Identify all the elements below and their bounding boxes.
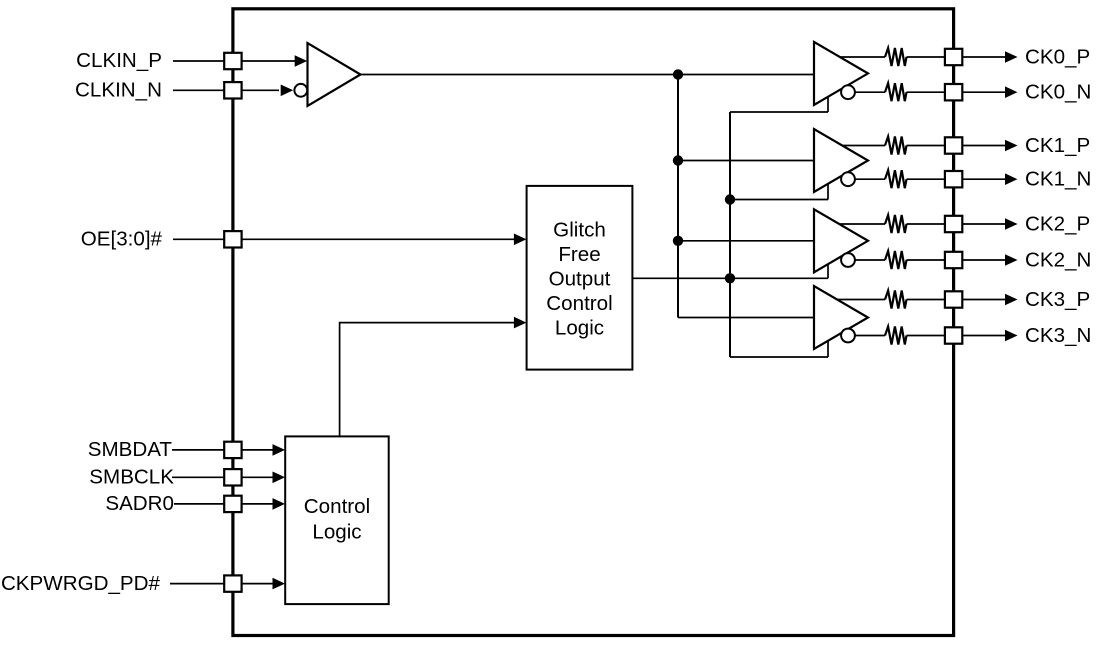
svg-text:OE[3:0]#: OE[3:0]#	[81, 228, 163, 251]
wire buffer CK1 true output to resistor	[842, 145, 885, 147]
arrowhead CK3_P output	[1005, 294, 1018, 306]
wire buffer CK3 true output to resistor	[837, 299, 885, 301]
wire resistor to CK3_N pad	[907, 335, 946, 337]
inverting-output bubble of buffer CK1	[841, 172, 855, 186]
pad OE[3:0]#	[224, 231, 241, 247]
svg-text:Control: Control	[546, 292, 612, 315]
svg-text:Logic: Logic	[312, 521, 361, 544]
wire resistor to CK2_N pad	[907, 259, 946, 261]
arrowhead CK1_N output	[1005, 173, 1018, 185]
wire SMBCLK to control logic	[172, 476, 273, 478]
pad CKPWRGD_PD#	[224, 575, 241, 591]
svg-text:CK0_N: CK0_N	[1025, 81, 1091, 104]
svg-text:CKPWRGD_PD#: CKPWRGD_PD#	[1, 572, 161, 595]
wire CLKIN_N input	[173, 89, 279, 91]
pad CK3_N	[945, 327, 962, 343]
wire clock branch to buffer CK1	[678, 160, 814, 162]
wire buffer CK0 true output to resistor	[840, 56, 885, 58]
node enable junction at CK2 branch	[725, 273, 735, 283]
wire control logic to glitch logic	[340, 323, 514, 437]
wire SADR0 to control logic	[174, 503, 273, 505]
pad CK2_P	[945, 216, 962, 232]
svg-text:Output: Output	[549, 268, 611, 291]
inverting-output bubble of buffer CK2	[841, 253, 855, 267]
output buffer U3 (CK1)	[814, 129, 868, 192]
input differential buffer U1	[308, 43, 361, 106]
arrowhead CLKIN_P into buffer U1	[295, 55, 308, 67]
wire enable stub into buffer CK0	[827, 97, 829, 112]
svg-text:CLKIN_N: CLKIN_N	[75, 79, 162, 102]
wire enable stub into buffer CK3	[827, 341, 829, 357]
series resistor on CK0_P	[885, 48, 907, 66]
wire CK3_N pad to arrow	[962, 335, 1005, 337]
arrowhead CKPWRGD_PD#	[273, 578, 286, 590]
wire CLKIN_P input	[173, 60, 295, 62]
wire CK2_P pad to arrow	[962, 223, 1005, 225]
wire buffer CK0 complement output to resistor	[855, 91, 885, 93]
svg-text:Glitch: Glitch	[553, 218, 606, 241]
IC boundary outline	[233, 9, 954, 636]
series resistor on CK2_N	[885, 251, 907, 269]
svg-text:CK1_N: CK1_N	[1025, 168, 1091, 191]
svg-text:CK0_P: CK0_P	[1025, 45, 1090, 68]
svg-text:Free: Free	[558, 243, 600, 266]
wire CK0_N pad to arrow	[962, 91, 1005, 93]
arrowhead CK1_P output	[1005, 140, 1018, 152]
arrowhead OE into glitch logic	[514, 234, 527, 246]
wire OE[3:0]# to glitch logic	[173, 238, 514, 240]
wire clock branch to buffer CK2	[678, 240, 814, 242]
pad CK1_N	[945, 171, 962, 187]
output buffer U2 (CK0)	[814, 42, 868, 105]
output buffer U5 (CK3)	[814, 286, 868, 349]
arrowhead CK0_P output	[1005, 51, 1018, 63]
wire resistor to CK2_P pad	[907, 223, 946, 225]
node clock junction at CK1 row	[673, 155, 683, 165]
wire CK0_P pad to arrow	[962, 56, 1005, 58]
arrowhead SADR0	[273, 498, 286, 510]
wire CKPWRGD_PD# to control logic	[170, 583, 273, 585]
wire enable branch to buffer CK0	[730, 111, 828, 113]
arrowhead CK2_P output	[1005, 218, 1018, 230]
arrowhead SMBDAT	[273, 444, 286, 456]
wire buffer CK2 complement output to resistor	[855, 259, 885, 261]
pad SMBDAT	[224, 442, 241, 458]
wire buffer CK3 complement output to resistor	[855, 335, 885, 337]
pad SADR0	[224, 496, 241, 512]
pad CLKIN_N	[224, 82, 241, 98]
wire SMBDAT to control logic	[172, 449, 273, 451]
pad CK3_P	[945, 291, 962, 307]
node clock junction at CK2 row	[673, 236, 683, 246]
svg-text:Logic: Logic	[555, 317, 604, 340]
series resistor on CK1_N	[885, 170, 907, 188]
pad CK0_N	[945, 84, 962, 100]
series resistor on CK3_N	[885, 327, 907, 345]
inverting-output bubble of buffer CK0	[841, 85, 855, 99]
node clock junction at CK0 row	[673, 69, 683, 79]
wire enable stub into buffer CK1	[827, 184, 829, 200]
series resistor on CK2_P	[885, 215, 907, 233]
wire clock branch to buffer CK3	[678, 317, 814, 319]
series resistor on CK3_P	[885, 291, 907, 309]
output buffer U4 (CK2)	[814, 209, 868, 272]
pad SMBCLK	[224, 469, 241, 485]
wire enable branch to buffer CK1	[730, 199, 828, 201]
arrowhead CK3_N output	[1005, 330, 1018, 342]
series resistor on CK1_P	[885, 137, 907, 155]
wire CK1_P pad to arrow	[962, 145, 1005, 147]
wire CK2_N pad to arrow	[962, 259, 1005, 261]
wire resistor to CK3_P pad	[907, 299, 946, 301]
pad CK2_N	[945, 252, 962, 268]
series resistor on CK0_N	[885, 83, 907, 101]
wire buffer CK1 complement output to resistor	[855, 178, 885, 180]
wire enable branch to buffer CK3	[730, 356, 828, 358]
pad CLKIN_P	[224, 53, 241, 69]
svg-text:SMBDAT: SMBDAT	[88, 438, 173, 461]
arrowhead CLKIN_N into bubble	[281, 85, 294, 97]
node enable junction at CK1 branch	[725, 194, 735, 204]
arrowhead SMBCLK	[273, 472, 286, 484]
Glitch Free Output Control Logic block	[527, 186, 633, 370]
svg-text:CK2_N: CK2_N	[1025, 248, 1091, 271]
wire clock bus vertical (net CLK)	[677, 75, 679, 318]
svg-text:CK1_P: CK1_P	[1025, 134, 1090, 157]
Control Logic block	[285, 436, 389, 604]
svg-text:CK2_P: CK2_P	[1025, 212, 1090, 235]
wire resistor to CK1_P pad	[907, 145, 946, 147]
wire CK3_P pad to arrow	[962, 299, 1005, 301]
svg-text:SADR0: SADR0	[105, 492, 174, 515]
svg-text:CLKIN_P: CLKIN_P	[76, 49, 162, 72]
wire enable bus vertical (net EN)	[729, 112, 731, 357]
wire resistor to CK0_N pad	[907, 91, 946, 93]
wire resistor to CK1_N pad	[907, 178, 946, 180]
svg-text:CK3_P: CK3_P	[1025, 288, 1090, 311]
wire glitch logic output (net EN)	[632, 277, 828, 279]
svg-text:Control: Control	[304, 495, 370, 518]
wire resistor to CK0_P pad	[907, 56, 946, 58]
inverting-output bubble of buffer CK3	[841, 329, 855, 343]
wire buffer CK2 true output to resistor	[839, 223, 885, 225]
wire enable stub into buffer CK2	[827, 264, 829, 278]
wire U1 output to buffer CK0 input (net CLK)	[361, 74, 815, 76]
arrowhead CK2_N output	[1005, 254, 1018, 266]
svg-text:CK3_N: CK3_N	[1025, 324, 1091, 347]
pad CK1_P	[945, 137, 962, 153]
arrowhead CK0_N output	[1005, 86, 1018, 98]
inverting-input bubble of U1	[294, 84, 307, 97]
wire CK1_N pad to arrow	[962, 178, 1005, 180]
arrowhead into glitch logic	[514, 317, 527, 329]
pad CK0_P	[945, 49, 962, 65]
svg-text:SMBCLK: SMBCLK	[89, 466, 174, 489]
